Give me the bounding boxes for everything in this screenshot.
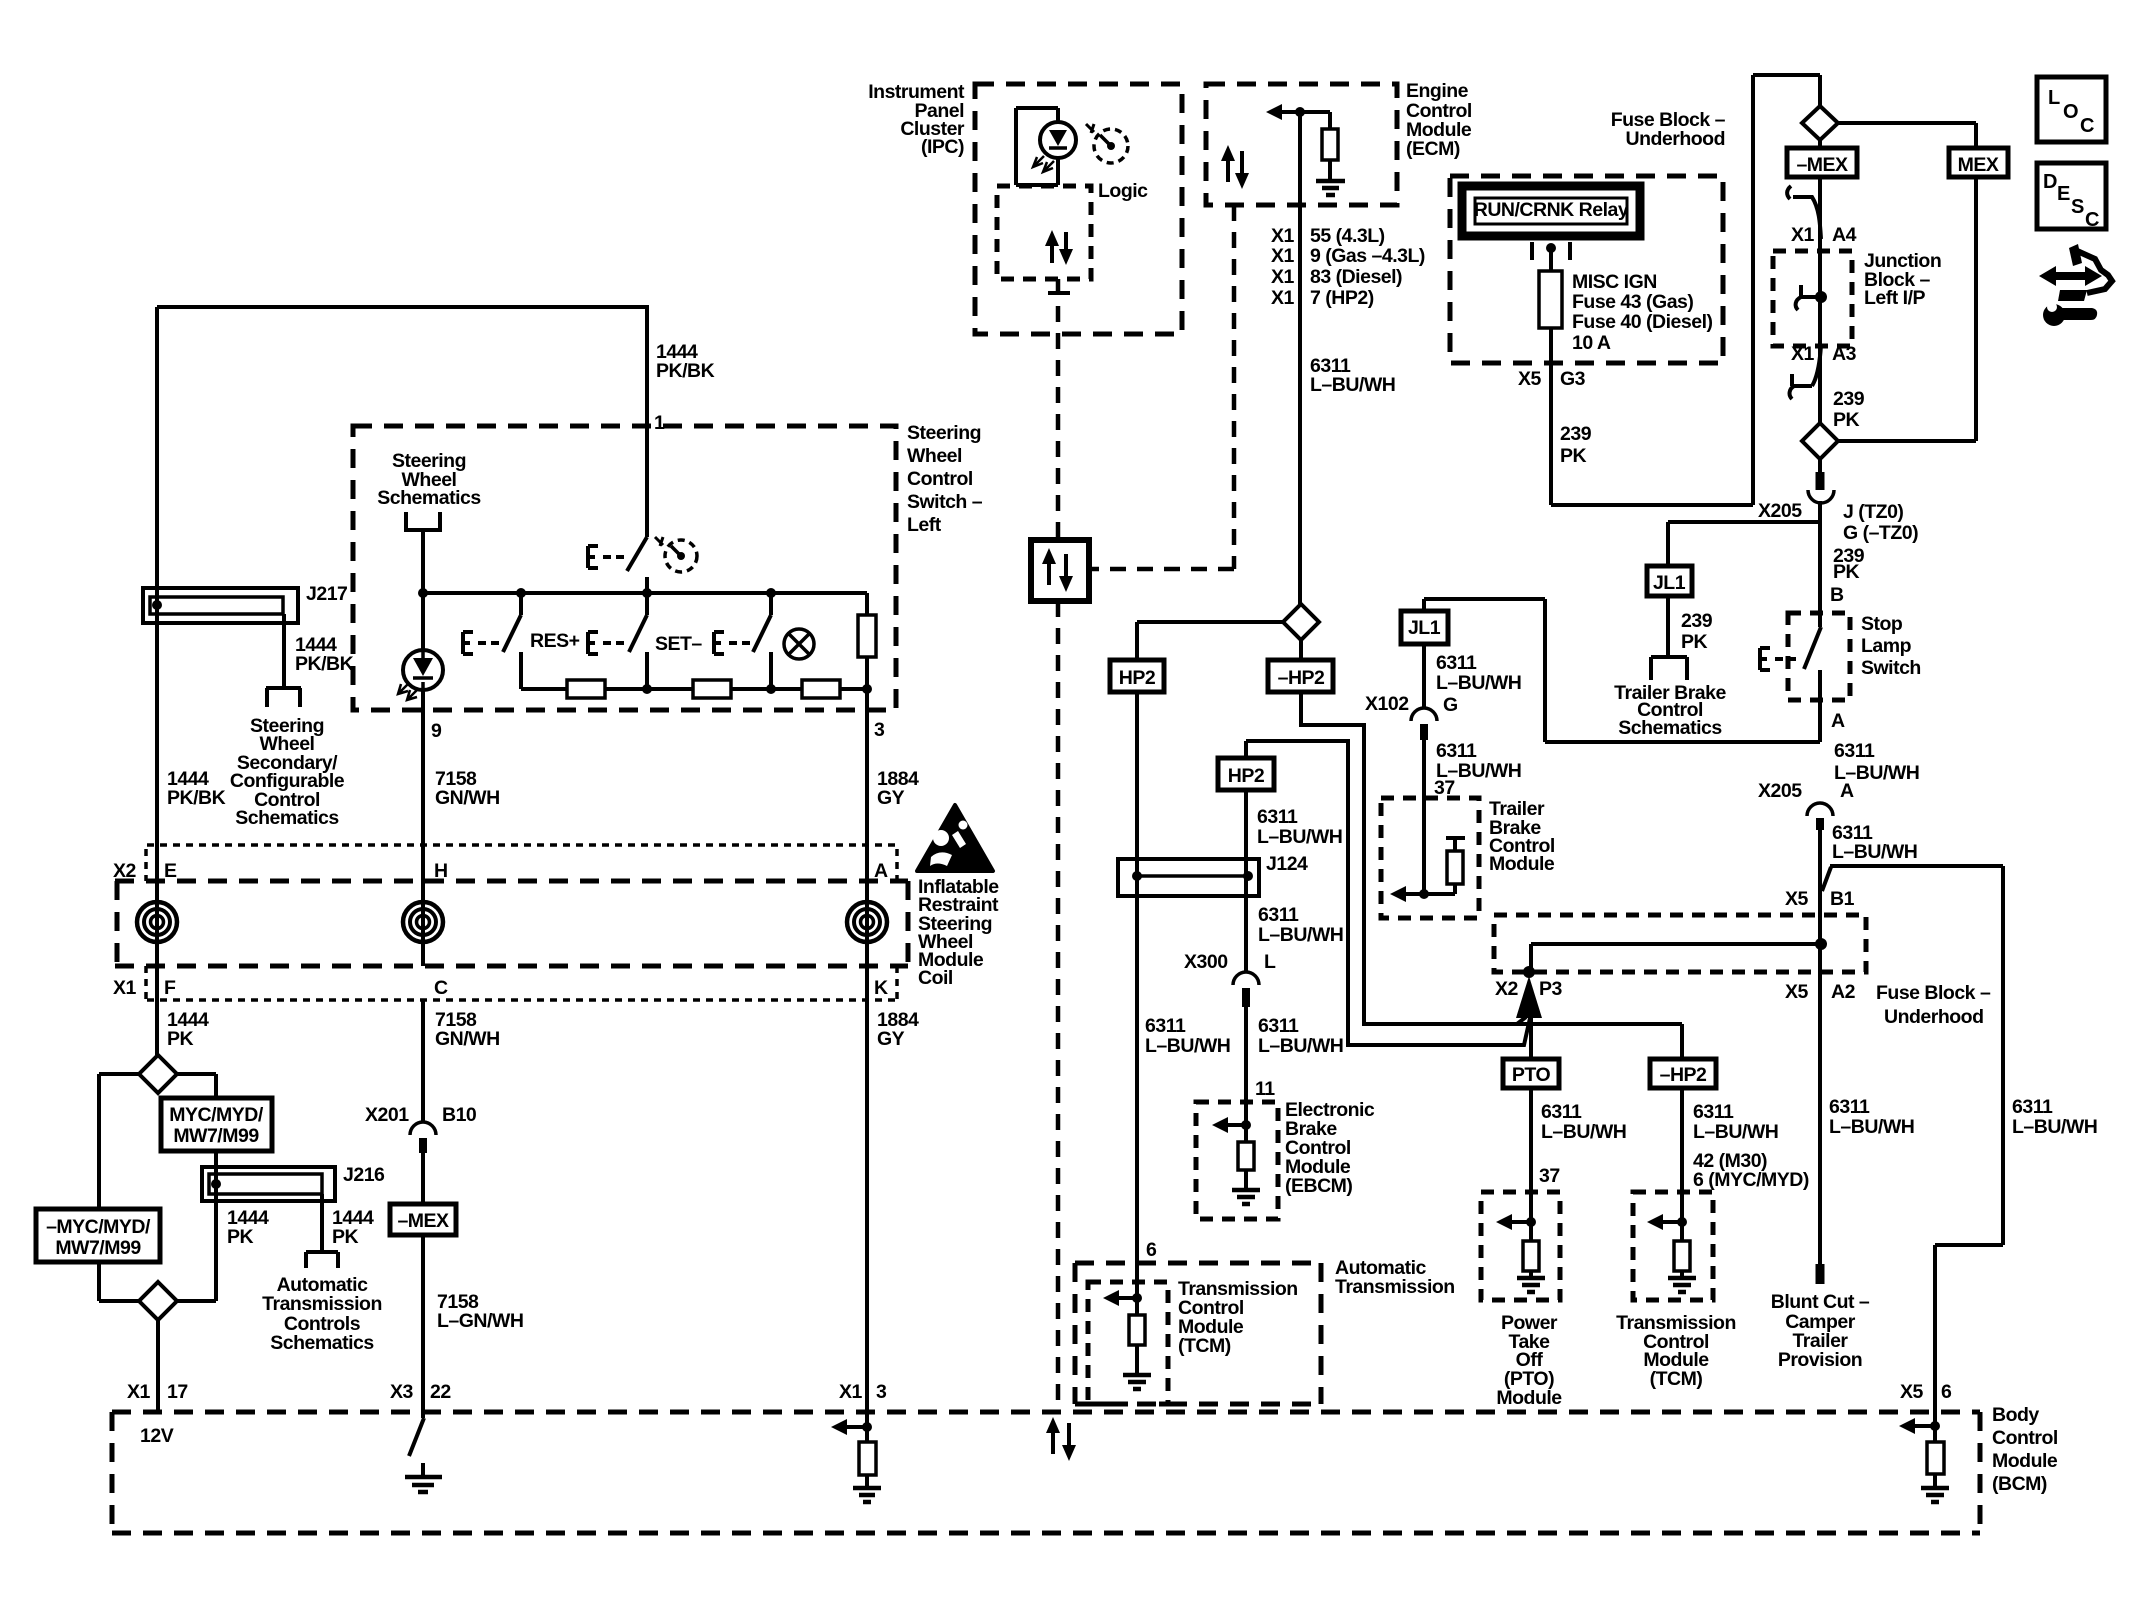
switch lamp — [714, 593, 771, 689]
svg-text:Module: Module — [1496, 1387, 1562, 1409]
fuse clip — [1532, 242, 1570, 271]
svg-text:G3: G3 — [1560, 368, 1586, 390]
label Junction Block - Left I/P — [1864, 250, 1941, 309]
label Fuse Block - Underhood right — [1876, 982, 1991, 1028]
svg-text:PK/BK: PK/BK — [167, 787, 226, 809]
label 1884 GY upper — [877, 768, 919, 809]
arrow and resistor to ground inside EBCM — [1212, 1117, 1260, 1204]
label X1 3 bottom — [839, 1381, 887, 1403]
svg-text:B: B — [1830, 584, 1844, 606]
label X2 row pins — [113, 860, 888, 882]
svg-text:X1: X1 — [127, 1381, 151, 1403]
connector X205 J/G — [1808, 459, 1834, 503]
svg-text:F: F — [164, 977, 176, 999]
label 12V — [140, 1425, 174, 1447]
label Inflatable Restraint Steering Wheel Module Coil — [918, 876, 999, 989]
svg-text:PK: PK — [227, 1226, 254, 1248]
label X1 A3 — [1791, 343, 1857, 365]
svg-text:6311: 6311 — [1541, 1101, 1582, 1123]
box Logic (dashed) — [997, 186, 1091, 279]
svg-text:(IPC): (IPC) — [921, 136, 964, 158]
svg-text:MW7/M99: MW7/M99 — [173, 1125, 259, 1147]
box Junction Block - Left I/P (dashed) — [1773, 251, 1852, 346]
box Fuse Block - Underhood right (dashed) — [1494, 915, 1866, 972]
label Body Control Module (BCM) — [1992, 1404, 2058, 1495]
svg-text:3: 3 — [876, 1381, 887, 1403]
svg-text:L–BU/WH: L–BU/WH — [2012, 1116, 2097, 1138]
svg-text:C: C — [2085, 209, 2099, 231]
svg-text:(TCM): (TCM) — [1650, 1368, 1703, 1390]
svg-text:Schematics: Schematics — [235, 807, 339, 829]
label Electronic Brake Control Module (EBCM) — [1285, 1099, 1375, 1197]
svg-text:E: E — [2057, 183, 2070, 205]
serial data dashed line from IPC — [1048, 279, 1070, 540]
svg-text:X5: X5 — [1518, 368, 1542, 390]
svg-text:Steering: Steering — [907, 422, 981, 444]
label Engine Control Module (ECM) — [1406, 80, 1472, 160]
label 3 — [874, 719, 885, 741]
label 239 PK at fuse — [1560, 423, 1592, 467]
terminal hook X1 A4 — [1787, 186, 1821, 239]
svg-text:GY: GY — [877, 1028, 905, 1050]
serial data junction box — [1031, 540, 1089, 601]
svg-text:3: 3 — [874, 719, 885, 741]
wire JL1 to trailer brake bracket — [1651, 596, 1687, 680]
splice J216 — [202, 1167, 335, 1201]
svg-text:6311: 6311 — [1436, 652, 1477, 674]
svg-text:Lamp: Lamp — [1861, 635, 1912, 657]
label RES+ — [530, 630, 580, 652]
box Automatic Transmission (dashed) — [1075, 1263, 1321, 1404]
svg-text:6311: 6311 — [1834, 740, 1875, 762]
label 7158 GN/WH lower — [435, 1009, 500, 1050]
serial data arrows at BCM — [1046, 1417, 1076, 1461]
connector X201 B10 — [410, 1000, 436, 1153]
gauge icon in IPC — [1086, 124, 1128, 163]
svg-text:Stop: Stop — [1861, 613, 1903, 635]
label Automatic Transmission — [1335, 1257, 1455, 1298]
pin 1 — [654, 412, 665, 434]
gauge icon (speedometer) — [665, 540, 697, 572]
label J124 — [1266, 853, 1308, 875]
label Transmission Control Module (TCM) — [1178, 1278, 1298, 1357]
svg-text:Schematics: Schematics — [270, 1332, 374, 1354]
svg-text:(TCM): (TCM) — [1178, 1335, 1231, 1357]
svg-text:L–BU/WH: L–BU/WH — [1258, 1035, 1343, 1057]
svg-text:6311: 6311 — [1693, 1101, 1734, 1123]
svg-text:(ECM): (ECM) — [1406, 138, 1460, 160]
label 1884 GY lower — [877, 1009, 919, 1050]
label X201 B10 — [365, 1104, 477, 1126]
coil H-C (clockspring) — [403, 902, 443, 942]
bus wire upper inside switch box — [421, 588, 867, 598]
label pin 11 — [1255, 1078, 1275, 1100]
label 9 — [431, 720, 442, 742]
label Automatic Transmission Controls Schematics — [262, 1274, 382, 1354]
label X205 J (TZ0) G (-TZ0) — [1758, 500, 1918, 544]
svg-text:X5: X5 — [1785, 981, 1809, 1003]
label Trailer Brake Control Schematics — [1614, 682, 1726, 739]
wire -MEX down through junction block — [1818, 177, 1822, 423]
label X5 B1 — [1785, 888, 1855, 910]
resistor R3 on lower bus — [802, 680, 840, 698]
svg-text:17: 17 — [167, 1381, 188, 1403]
wire diamond to HP2 — [1137, 622, 1283, 660]
svg-text:HP2: HP2 — [1119, 667, 1156, 689]
label X1 A4 — [1791, 224, 1857, 246]
svg-text:9: 9 — [431, 720, 442, 742]
svg-text:L: L — [2048, 87, 2060, 109]
svg-text:L–BU/WH: L–BU/WH — [1310, 374, 1395, 396]
splice J217 — [143, 588, 298, 623]
label X205 A — [1758, 780, 1854, 802]
terminal hook X1 A3 — [1790, 345, 1821, 399]
wire HP2 branch over and down — [1246, 741, 1530, 1045]
box Stop Lamp Switch (dashed) — [1788, 613, 1850, 700]
svg-text:MEX: MEX — [1958, 154, 1999, 176]
svg-text:X2: X2 — [1495, 978, 1519, 1000]
svg-text:239: 239 — [1681, 610, 1713, 632]
svg-text:L–BU/WH: L–BU/WH — [1258, 924, 1343, 946]
svg-text:X1: X1 — [1271, 287, 1295, 309]
svg-text:L–BU/WH: L–BU/WH — [1829, 1116, 1914, 1138]
svg-text:A: A — [1831, 710, 1845, 732]
svg-text:Left I/P: Left I/P — [1864, 287, 1925, 309]
svg-text:L–BU/WH: L–BU/WH — [1541, 1121, 1626, 1143]
label 6311 L-BU/WH below PTO — [1541, 1101, 1626, 1143]
warning triangle airbag icon — [917, 805, 993, 871]
svg-text:RUN/CRNK Relay: RUN/CRNK Relay — [1474, 199, 1629, 221]
svg-text:11: 11 — [1255, 1078, 1275, 1100]
svg-text:A: A — [1840, 780, 1854, 802]
svg-text:MISC IGN: MISC IGN — [1572, 271, 1657, 293]
node diamond above -MEX — [1802, 106, 1838, 140]
svg-text:JL1: JL1 — [1408, 617, 1441, 639]
wire 6311 main down to blunt cut — [1818, 830, 1822, 1264]
terminal inside junction block — [1796, 285, 1827, 310]
label 7158 L-GN/WH — [437, 1291, 523, 1332]
svg-text:PK: PK — [1833, 561, 1860, 583]
svg-text:A3: A3 — [1832, 343, 1857, 365]
svg-text:Logic: Logic — [1098, 180, 1148, 202]
svg-text:6311: 6311 — [1258, 904, 1299, 926]
box Transmission Control Module right (dashed) — [1633, 1192, 1713, 1300]
svg-text:E: E — [164, 860, 177, 882]
svg-text:6311: 6311 — [1436, 740, 1477, 762]
label Logic — [1098, 180, 1148, 202]
wire branch JL1 second from stop lamp wire — [1424, 599, 1820, 742]
svg-text:B10: B10 — [442, 1104, 477, 1126]
box HP2 second — [1218, 758, 1274, 790]
box JL1 second — [1401, 611, 1448, 644]
svg-text:X1: X1 — [113, 977, 137, 999]
wire from J217 to steering wheel secondary bracket — [266, 614, 301, 707]
svg-text:6311: 6311 — [1257, 806, 1298, 828]
svg-text:J (TZ0): J (TZ0) — [1843, 501, 1903, 523]
label 6311 L-BU/WH below -HP2 — [1693, 1101, 1778, 1143]
lamp icon — [784, 629, 814, 659]
coil E-F (clockspring) — [137, 902, 177, 942]
svg-text:(BCM): (BCM) — [1992, 1473, 2047, 1495]
wire splice inside fuse block to X2 P3 — [1531, 938, 1827, 974]
svg-text:X201: X201 — [365, 1104, 409, 1126]
relay RUN/CRNK — [1462, 186, 1640, 236]
serial data dashed line to BCM — [1056, 601, 1061, 1411]
svg-text:7 (HP2): 7 (HP2) — [1310, 287, 1374, 309]
box Engine Control Module ECM (dashed) — [1206, 84, 1397, 205]
svg-text:1: 1 — [654, 412, 665, 434]
svg-text:83 (Diesel): 83 (Diesel) — [1310, 266, 1402, 288]
node diamond below junction block — [1802, 423, 1838, 459]
label Instrument Panel Cluster (IPC) — [868, 81, 965, 158]
svg-text:Underhood: Underhood — [1884, 1006, 1983, 1028]
svg-text:Fuse 43 (Gas): Fuse 43 (Gas) — [1572, 291, 1693, 313]
label Fuse Block - Underhood top — [1611, 109, 1726, 150]
label Steering Wheel Control Switch - Left — [907, 422, 983, 536]
label Blunt Cut - Camper Trailer Provision — [1771, 1291, 1870, 1371]
svg-text:X5: X5 — [1900, 1381, 1924, 1403]
label X5 G3 — [1518, 368, 1586, 390]
svg-text:Schematics: Schematics — [377, 487, 481, 509]
box MYC/MYD/MW7/M99 — [161, 1098, 272, 1151]
svg-text:X102: X102 — [1365, 693, 1409, 715]
arrow and resistor to ground inside PTO module — [1496, 1214, 1545, 1292]
wire through coil row — [157, 845, 867, 966]
svg-text:PK: PK — [1833, 409, 1860, 431]
label 1444 PK/BK (circuit 1444) — [656, 341, 715, 382]
svg-text:GY: GY — [877, 787, 905, 809]
svg-text:X1: X1 — [1271, 266, 1295, 288]
svg-text:12V: 12V — [140, 1425, 174, 1447]
svg-text:J124: J124 — [1266, 853, 1308, 875]
connector row X1 (dotted) — [146, 966, 897, 1000]
svg-text:–HP2: –HP2 — [1278, 667, 1325, 689]
svg-text:Switch: Switch — [1861, 657, 1921, 679]
label Transmission Control Module (TCM) right — [1616, 1312, 1736, 1390]
dashed stub ECM to serial box — [1089, 205, 1234, 569]
node diamond upper left — [139, 1055, 177, 1093]
wire diamond branches upper — [99, 1074, 216, 1209]
svg-text:MW7/M99: MW7/M99 — [55, 1237, 141, 1259]
svg-text:P3: P3 — [1539, 978, 1563, 1000]
arrow and resistor inside trailer brake control module — [1390, 838, 1465, 902]
svg-text:Fuse 40 (Diesel): Fuse 40 (Diesel) — [1572, 311, 1712, 333]
svg-text:–HP2: –HP2 — [1660, 1064, 1707, 1086]
resistor R1 on lower bus — [567, 680, 605, 698]
box Body Control Module BCM (dashed) — [112, 1412, 1980, 1533]
svg-text:SET–: SET– — [655, 633, 702, 655]
icon double arrow with wrench — [2039, 244, 2112, 326]
label X5 A2 — [1785, 981, 1856, 1003]
svg-text:D: D — [2043, 171, 2057, 193]
svg-text:Fuse Block –: Fuse Block – — [1876, 982, 1991, 1004]
label J216 — [343, 1164, 385, 1186]
wire -HP2 down — [1680, 1088, 1684, 1222]
wire pin 3 down — [865, 689, 869, 881]
svg-text:PK: PK — [1681, 631, 1708, 653]
fuse MISC IGN — [1539, 271, 1562, 328]
arrow and resistor to ground inside BCM at X1 3 — [831, 1419, 881, 1502]
arrow and resistor to ground inside ECM — [1266, 104, 1345, 195]
svg-text:239: 239 — [1560, 423, 1592, 445]
svg-text:PTO: PTO — [1512, 1064, 1551, 1086]
svg-text:Blunt Cut –: Blunt Cut – — [1771, 1291, 1870, 1313]
label Trailer Brake Control Module — [1489, 798, 1555, 875]
box Fuse Block - Underhood top (dashed) — [1450, 176, 1723, 363]
label 6311 L-BU/WH below X205 A — [1832, 822, 1917, 863]
label 1444 PK/BK left — [167, 768, 226, 809]
wire branch to far right column — [1822, 866, 2003, 1442]
wire HP2 second down through J124 — [1244, 790, 1248, 972]
svg-text:Wheel: Wheel — [907, 445, 962, 467]
wire -HP2 down and over — [1301, 692, 1682, 1059]
resistor R2 on lower bus — [693, 680, 731, 698]
coil A-K (clockspring) — [847, 902, 887, 942]
box PTO — [1503, 1059, 1559, 1088]
svg-text:J216: J216 — [343, 1164, 385, 1186]
serial data arrows in Logic box — [1045, 230, 1073, 265]
label X3 22 — [390, 1381, 451, 1403]
svg-text:–MYC/MYD/: –MYC/MYD/ — [46, 1216, 151, 1238]
svg-text:55 (4.3L): 55 (4.3L) — [1310, 225, 1385, 247]
label ECM pins X1 55/9/83/7 — [1271, 225, 1425, 309]
wire J216 to automatic transmission bracket — [306, 1194, 338, 1268]
svg-text:MYC/MYD/: MYC/MYD/ — [169, 1104, 264, 1126]
svg-text:L: L — [1264, 951, 1276, 973]
bracket below Steering Wheel Schematics — [406, 512, 440, 530]
svg-text:L–BU/WH: L–BU/WH — [1145, 1035, 1230, 1057]
svg-text:37: 37 — [1539, 1165, 1560, 1187]
wire PTO down — [1529, 1088, 1533, 1222]
svg-text:X300: X300 — [1184, 951, 1228, 973]
svg-text:S: S — [2071, 196, 2084, 218]
svg-text:6: 6 — [1146, 1239, 1157, 1261]
svg-text:PK: PK — [332, 1226, 359, 1248]
label 6311 L-BU/WH at ECM — [1310, 355, 1395, 396]
wire 7158 L-GN/WH down to X3 22 — [421, 1235, 425, 1412]
box -MEX right — [1787, 140, 1857, 177]
svg-text:X5: X5 — [1785, 888, 1809, 910]
svg-text:9 (Gas –4.3L): 9 (Gas –4.3L) — [1310, 245, 1425, 267]
box -HP2 second — [1650, 1059, 1716, 1088]
svg-text:Provision: Provision — [1778, 1349, 1862, 1371]
wire diamond to BCM X1 17 — [156, 1320, 160, 1412]
label X1 17 — [127, 1381, 188, 1403]
box Instrument Panel Cluster IPC (dashed) — [975, 84, 1182, 334]
icon LOC box — [2037, 77, 2106, 142]
wire 1444 PK/BK top loop — [157, 307, 647, 588]
svg-text:10 A: 10 A — [1572, 332, 1611, 354]
svg-text:L–BU/WH: L–BU/WH — [1693, 1121, 1778, 1143]
svg-text:(EBCM): (EBCM) — [1285, 1175, 1352, 1197]
box -MEX left — [390, 1153, 456, 1235]
svg-text:A4: A4 — [1832, 224, 1857, 246]
box Inflatable Restraint Steering Wheel Module Coil (heavy dashed) — [115, 881, 908, 966]
svg-text:6311: 6311 — [1258, 1015, 1299, 1037]
box Electronic Brake Control Module EBCM (dashed) — [1196, 1102, 1278, 1219]
wire 1444 PK to diamond — [155, 1000, 159, 1055]
svg-text:X205: X205 — [1758, 780, 1802, 802]
svg-text:Left: Left — [907, 514, 942, 536]
label 6311 L-BU/WH at blunt cut — [1829, 1096, 1914, 1138]
svg-text:X1: X1 — [1791, 224, 1815, 246]
arrow and resistor to ground inside BCM at X5 6 — [1899, 1418, 1949, 1502]
svg-text:PK: PK — [167, 1028, 194, 1050]
label 239 PK at junction block — [1833, 388, 1865, 431]
icon DESC box — [2037, 163, 2106, 231]
label 6311 L-BU/WH at HP2 wire — [1145, 1015, 1230, 1057]
label 6311 L-BU/WH below J124 — [1258, 904, 1343, 946]
label 1444 PK lower — [167, 1009, 209, 1050]
wire 1444 PK/BK left vertical — [155, 623, 159, 1055]
node diamond lower left — [139, 1282, 177, 1320]
svg-text:–MEX: –MEX — [1796, 154, 1848, 176]
svg-text:Schematics: Schematics — [1618, 717, 1722, 739]
switch stop lamp — [1760, 613, 1821, 742]
label 6311 L-BU/WH above X205 A — [1834, 740, 1919, 784]
label MISC IGN Fuse 43 Fuse 40 10 A — [1572, 271, 1712, 354]
label pin 37 — [1434, 777, 1455, 799]
svg-text:A2: A2 — [1831, 981, 1856, 1003]
connector X102 G — [1411, 644, 1437, 894]
wire pin 9 from LED down — [421, 690, 425, 845]
node diamond ECM output — [1283, 604, 1319, 640]
wire 239 PK loop up to junction block — [1551, 75, 1820, 505]
blunt cut terminator — [1816, 1264, 1825, 1284]
svg-text:Transmission: Transmission — [1335, 1276, 1455, 1298]
wire MYC box to J216 — [214, 1151, 218, 1167]
serial data arrows in ECM — [1221, 145, 1249, 189]
wire J216 down to lower diamond — [99, 1201, 216, 1301]
label J217 — [306, 583, 347, 605]
svg-text:JL1: JL1 — [1653, 572, 1686, 594]
svg-text:Coil: Coil — [918, 967, 953, 989]
label 6311 L-BU/WH below HP2 second — [1257, 806, 1342, 848]
label 1444 PK/BK at J217 — [295, 634, 354, 675]
svg-text:O: O — [2063, 101, 2079, 123]
label SET- — [655, 633, 702, 655]
wire 1884 GY into BCM X1 3 — [865, 966, 869, 1442]
svg-text:J217: J217 — [306, 583, 347, 605]
label X1 row pins — [113, 977, 888, 999]
svg-text:Module: Module — [1992, 1450, 2058, 1472]
label 239 PK at JL1 — [1681, 610, 1713, 653]
connector X205 A — [1807, 803, 1833, 830]
label X5 6 — [1900, 1381, 1952, 1403]
label pin 37 at PTO — [1539, 1165, 1560, 1187]
wire 6311 L-BU/WH from ECM — [1298, 112, 1302, 604]
svg-text:X1: X1 — [1271, 245, 1295, 267]
label Power Take Off (PTO) Module — [1496, 1312, 1562, 1409]
wire fuse down through X5 G3 — [1549, 328, 1553, 505]
wire through J217 — [155, 588, 159, 623]
svg-text:PK/BK: PK/BK — [656, 360, 715, 382]
wire from bracket to LED — [418, 530, 428, 650]
svg-text:–MEX: –MEX — [397, 1210, 449, 1232]
box JL1 first — [1647, 566, 1692, 596]
wire through J216 — [214, 1167, 218, 1201]
label 1444 PK left of J216 — [227, 1207, 269, 1248]
label 6311 L-BU/WH above X102 — [1436, 652, 1521, 694]
lamp circuit loop in IPC — [1016, 108, 1058, 185]
box Steering Wheel Control Switch - Left (dashed) — [353, 426, 896, 710]
arrow and resistor to ground inside TCM right — [1647, 1214, 1696, 1292]
svg-text:L–BU/WH: L–BU/WH — [1257, 826, 1342, 848]
bus wire lower inside switch box — [521, 684, 872, 694]
svg-text:L–GN/WH: L–GN/WH — [437, 1310, 523, 1332]
svg-text:6: 6 — [1941, 1381, 1952, 1403]
box -HP2 — [1268, 640, 1333, 692]
